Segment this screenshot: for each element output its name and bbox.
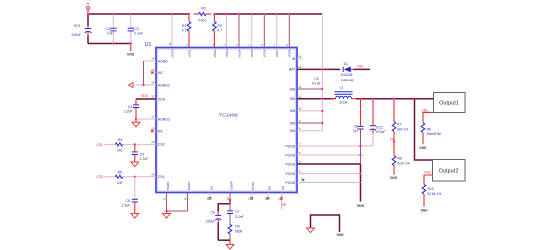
svg-text:29: 29 xyxy=(151,140,155,144)
svg-text:C2: C2 xyxy=(134,27,138,31)
svg-text:SS: SS xyxy=(209,186,213,190)
svg-text:23: 23 xyxy=(248,197,252,201)
svg-text:FB: FB xyxy=(282,203,287,207)
svg-text:CS2: CS2 xyxy=(96,175,103,179)
pin bottom NC x252 xyxy=(251,193,254,200)
pin 30 NC xyxy=(151,127,164,134)
svg-text:R7: R7 xyxy=(397,122,401,126)
wire rail corner down to BAT xyxy=(321,14,323,69)
svg-text:C5: C5 xyxy=(314,77,318,81)
svg-text:14: 14 xyxy=(298,54,302,58)
svg-text:560k: 560k xyxy=(235,229,243,233)
pin bottom NC x268 xyxy=(267,193,270,200)
svg-text:GND: GND xyxy=(337,233,345,237)
capacitor C4 xyxy=(132,144,148,161)
svg-text:30: 30 xyxy=(151,127,155,131)
capacitor EC1 xyxy=(71,14,91,44)
svg-text:TC1469: TC1469 xyxy=(219,112,238,118)
resistor R4 xyxy=(104,138,156,153)
svg-text:10: 10 xyxy=(298,107,302,111)
svg-text:R4: R4 xyxy=(118,138,122,142)
svg-text:22uH: 22uH xyxy=(339,100,348,104)
svg-text:28: 28 xyxy=(151,172,155,176)
wire top pin drop x289 xyxy=(288,14,290,47)
svg-text:100: 100 xyxy=(117,181,123,185)
wire top pin drop x252 xyxy=(251,14,253,47)
svg-text:33: 33 xyxy=(151,81,155,85)
svg-text:2.2uF: 2.2uF xyxy=(139,157,148,161)
svg-text:VDD8: VDD8 xyxy=(288,49,292,57)
svg-text:VDD: VDD xyxy=(141,94,149,98)
svg-text:PGND: PGND xyxy=(285,153,295,157)
svg-text:C6: C6 xyxy=(210,211,214,215)
svg-text:SW: SW xyxy=(290,129,296,133)
wire top pin drop x277 xyxy=(276,14,278,47)
svg-text:SW: SW xyxy=(290,87,296,91)
svg-text:CS2: CS2 xyxy=(158,143,165,147)
node CS1 junction xyxy=(134,176,136,178)
pin 5 PGND xyxy=(285,160,360,167)
svg-text:0.1uF: 0.1uF xyxy=(134,32,143,36)
svg-text:VDD5: VDD5 xyxy=(250,49,254,57)
svg-text:VIN: VIN xyxy=(357,65,363,69)
pin numbers top row xyxy=(168,42,289,46)
svg-text:220uF: 220uF xyxy=(71,33,81,37)
svg-text:VDD4: VDD4 xyxy=(237,49,241,57)
wire VS2 xyxy=(424,175,433,184)
ground triangle under C4 xyxy=(131,162,139,167)
wire top rail left xyxy=(88,13,189,15)
svg-text:R8: R8 xyxy=(398,156,402,160)
pin bottom COMP x230 xyxy=(229,193,231,200)
capacitor EC2 xyxy=(370,99,386,146)
svg-text:PGND: PGND xyxy=(187,181,191,191)
svg-text:C1: C1 xyxy=(106,27,110,31)
wire top rail right xyxy=(214,13,322,15)
svg-text:GND: GND xyxy=(357,204,365,208)
capacitor C7 xyxy=(227,210,244,224)
svg-text:COMP: COMP xyxy=(229,181,233,190)
ground GND power symbol xyxy=(127,44,135,57)
svg-text:AGND3: AGND3 xyxy=(158,117,170,121)
wire EC2 bottom to bus xyxy=(361,145,374,147)
wire comp center vertical xyxy=(229,200,231,211)
wire EC1 bottom to GND xyxy=(88,43,131,45)
wire CB1 xyxy=(423,112,434,123)
pin 33 AGND2 with port arrow xyxy=(129,81,170,88)
svg-text:EC1: EC1 xyxy=(74,24,81,28)
svg-text:U1: U1 xyxy=(145,42,152,48)
svg-text:C5: C5 xyxy=(125,199,129,203)
resistor R8 xyxy=(390,142,410,181)
svg-text:140: 140 xyxy=(117,149,123,153)
svg-text:R1: R1 xyxy=(182,24,186,28)
pin 9 SW xyxy=(290,119,323,126)
svg-text:D1: D1 xyxy=(344,62,348,66)
svg-text:4.7: 4.7 xyxy=(217,29,222,33)
svg-text:VDD1: VDD1 xyxy=(187,49,191,57)
node COMP junction xyxy=(229,199,231,201)
wire SW bus vertical xyxy=(321,69,323,130)
pin 10 SW xyxy=(290,107,323,114)
svg-text:GND: GND xyxy=(419,146,427,150)
pin numbers bottom row xyxy=(162,197,281,201)
op-amp U1 chip body TC1469 xyxy=(145,42,297,193)
svg-text:Output2: Output2 xyxy=(439,168,459,174)
pin labels top row inside xyxy=(170,49,291,57)
svg-text:R5: R5 xyxy=(118,170,122,174)
svg-text:FB: FB xyxy=(390,138,395,142)
svg-text:(optional): (optional) xyxy=(341,78,354,82)
svg-text:12: 12 xyxy=(298,85,302,89)
wire VIN xyxy=(354,68,371,70)
resistor R5 xyxy=(104,170,156,185)
svg-text:NC: NC xyxy=(158,71,163,75)
pin 14 IN xyxy=(292,54,303,61)
svg-text:PGND: PGND xyxy=(285,162,295,166)
node FB xyxy=(393,141,395,143)
svg-text:34: 34 xyxy=(151,68,155,72)
svg-text:AGND: AGND xyxy=(158,59,168,63)
svg-text:2.2uF: 2.2uF xyxy=(122,204,131,208)
svg-text:32: 32 xyxy=(151,95,155,99)
wire AGND tie vertical xyxy=(143,61,145,85)
svg-text:330 1%: 330 1% xyxy=(397,127,409,131)
capacitor C6 bottom electrolytic xyxy=(206,211,221,241)
svg-text:GND: GND xyxy=(390,176,398,180)
wire top pin drop x264 xyxy=(263,14,265,47)
capacitor C1 xyxy=(106,14,116,44)
svg-text:26: 26 xyxy=(183,197,187,201)
svg-text:R9: R9 xyxy=(235,225,239,229)
resistor R7 xyxy=(392,99,408,142)
svg-text:PGND: PGND xyxy=(285,144,295,148)
wire VOUT row xyxy=(356,98,434,100)
svg-text:VDD: VDD xyxy=(158,97,166,101)
svg-text:36: 36 xyxy=(168,42,172,46)
node rail junctions xyxy=(87,13,291,45)
svg-text:VS2: VS2 xyxy=(424,171,431,175)
svg-text:220uF: 220uF xyxy=(206,220,216,224)
svg-text:VDD2: VDD2 xyxy=(213,49,217,57)
svg-text:CB1: CB1 xyxy=(421,108,428,112)
wire comp branch xyxy=(218,200,230,212)
svg-text:NJ: NJ xyxy=(353,129,357,133)
resistor R2 xyxy=(194,6,212,22)
svg-text:NC: NC xyxy=(158,129,163,133)
resistor R10 xyxy=(420,184,441,212)
svg-text:PGND: PGND xyxy=(285,181,295,185)
svg-text:BAT: BAT xyxy=(289,68,295,72)
svg-text:C3: C3 xyxy=(128,105,132,109)
ground triangle under C3 xyxy=(132,119,140,127)
svg-text:1N4148: 1N4148 xyxy=(341,73,353,77)
Output1 box xyxy=(434,93,466,113)
pin 34 NC xyxy=(151,68,164,75)
svg-text:SW: SW xyxy=(290,121,296,125)
svg-text:vin: vin xyxy=(86,2,90,6)
svg-text:13: 13 xyxy=(298,65,302,69)
svg-text:C6: C6 xyxy=(354,125,358,129)
svg-text:22.6k 1%: 22.6k 1% xyxy=(427,192,441,196)
svg-text:R3: R3 xyxy=(217,24,221,28)
node vout junctions xyxy=(359,98,361,100)
capacitor C6 (NJ) xyxy=(353,99,363,134)
resistor R3 xyxy=(213,14,223,47)
svg-text:25mOHM: 25mOHM xyxy=(426,132,441,136)
node VDD/AGND3 junction xyxy=(135,118,137,120)
power port VIN xyxy=(86,2,90,14)
svg-text:SYNC: SYNC xyxy=(251,181,255,190)
svg-text:2.2uF: 2.2uF xyxy=(124,110,133,114)
Output2 box xyxy=(433,160,466,182)
svg-text:31: 31 xyxy=(151,115,155,119)
ground triangle bottom left xyxy=(163,211,171,218)
svg-text:4.7: 4.7 xyxy=(182,29,187,33)
svg-text:CS1: CS1 xyxy=(158,175,165,179)
svg-text:EN: EN xyxy=(267,186,271,190)
svg-text:27: 27 xyxy=(162,197,166,201)
svg-text:35: 35 xyxy=(151,57,155,61)
node BAT junction xyxy=(321,68,323,70)
node CS2 junction xyxy=(134,143,136,145)
svg-text:PGND: PGND xyxy=(285,172,295,176)
wire to Output2 xyxy=(415,99,433,160)
capacitor C5 left xyxy=(122,177,138,213)
svg-text:21: 21 xyxy=(277,197,281,201)
svg-text:CS1: CS1 xyxy=(96,143,103,147)
wire GND bus vertical xyxy=(357,134,365,208)
pin bottom PGND1 xyxy=(166,193,168,212)
wire comp bottom tie xyxy=(218,239,230,241)
svg-text:0.001: 0.001 xyxy=(198,19,207,23)
capacitor C3 xyxy=(124,99,139,119)
svg-text:VDD7: VDD7 xyxy=(275,49,279,57)
svg-text:VDD3: VDD3 xyxy=(225,49,229,57)
wire top pin drop x226 xyxy=(226,14,228,47)
svg-text:GND: GND xyxy=(420,209,428,213)
svg-text:GND: GND xyxy=(127,52,135,56)
svg-text:24: 24 xyxy=(226,197,230,201)
svg-text:SW: SW xyxy=(290,109,296,113)
svg-text:PGND: PGND xyxy=(166,181,170,191)
pin 13 BAT xyxy=(289,65,340,72)
pin 7 PGND xyxy=(285,142,360,149)
pin bottom NC x210 xyxy=(209,193,212,200)
svg-text:EC2: EC2 xyxy=(376,125,383,129)
svg-text:R2: R2 xyxy=(201,6,205,10)
svg-text:22: 22 xyxy=(264,197,268,201)
svg-text:11: 11 xyxy=(298,95,301,99)
svg-text:SW: SW xyxy=(290,97,296,101)
svg-text:2.2nF: 2.2nF xyxy=(235,215,244,219)
ground staple xyxy=(307,215,345,237)
node AGND junction xyxy=(142,84,144,86)
resistor R6 xyxy=(419,123,441,150)
svg-text:470uF: 470uF xyxy=(376,130,386,134)
pin 29 CS2 xyxy=(151,140,164,147)
node bottom gnd junction xyxy=(165,210,167,212)
svg-text:VDDA: VDDA xyxy=(170,49,174,57)
svg-text:0.1uF: 0.1uF xyxy=(312,82,321,86)
svg-text:R6: R6 xyxy=(427,127,431,131)
pin 6 PGND xyxy=(285,151,360,158)
pin bottom FB x281 xyxy=(280,193,287,210)
svg-text:IN: IN xyxy=(292,57,296,61)
resistor R1 xyxy=(182,14,191,47)
wire bottom gnd tie xyxy=(167,210,188,212)
svg-text:L1: L1 xyxy=(340,86,344,90)
pin 11 SW xyxy=(290,95,335,102)
pin labels bottom row inside xyxy=(166,181,285,191)
pin bottom PGND2 xyxy=(187,193,189,212)
pin 35 AGND xyxy=(144,57,169,64)
svg-text:1uF: 1uF xyxy=(107,32,113,36)
pin 28 CS1 xyxy=(151,172,164,179)
svg-text:6.2k 1%: 6.2k 1% xyxy=(398,161,410,165)
pin 8 SW xyxy=(290,127,323,134)
diode D1 xyxy=(341,62,354,82)
svg-text:VDD6: VDD6 xyxy=(263,49,267,57)
pin 31 AGND3 xyxy=(136,115,170,122)
svg-text:Output1: Output1 xyxy=(439,101,459,107)
ground triangle under C5 xyxy=(131,213,139,218)
pin 32 VDD xyxy=(136,94,166,101)
svg-text:25: 25 xyxy=(206,197,210,201)
pin 3 PGND xyxy=(285,169,360,176)
svg-text:R10: R10 xyxy=(428,187,434,191)
capacitor C2 xyxy=(128,14,143,44)
svg-text:C4: C4 xyxy=(140,153,144,157)
svg-text:C7: C7 xyxy=(235,210,239,214)
svg-text:AGND2: AGND2 xyxy=(158,83,170,87)
svg-text:FB: FB xyxy=(281,186,285,190)
capacitor C5 on bus xyxy=(312,77,321,85)
resistor R9 xyxy=(228,224,242,240)
wire top pin drop x172 xyxy=(171,14,173,47)
pin 12 SW xyxy=(290,85,323,92)
wire top pin drop x239 xyxy=(238,14,240,47)
inductor L1 xyxy=(331,86,357,105)
pin 2 PGND xyxy=(285,179,360,185)
ground triangle comp xyxy=(226,240,234,249)
